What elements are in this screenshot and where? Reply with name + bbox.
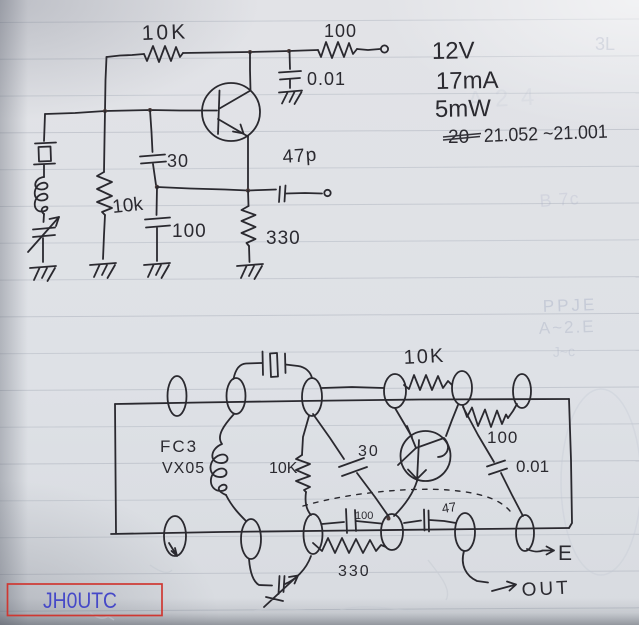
variable capacitor VC1 plates [33, 228, 55, 230]
svg-text:JH0UTC: JH0UTC [43, 588, 117, 613]
capacitor 0.01 lower lead to post B6 [501, 473, 523, 516]
svg-text:0.01: 0.01 [516, 457, 549, 476]
svg-text:100: 100 [355, 510, 373, 522]
post P4 [384, 374, 406, 408]
resistor R3 10k (bias) [97, 172, 112, 215]
crystal X1 right plate [284, 354, 287, 374]
resistor 10K (top of board) [404, 375, 452, 390]
svg-text:0.01: 0.01 [307, 69, 346, 89]
board outline bottom edge [111, 528, 569, 534]
capacitor C1 lower stub [289, 80, 291, 88]
capacitor C3 100 plates [145, 218, 170, 220]
post B1 [164, 516, 186, 556]
node junction rail/bypass [287, 49, 291, 53]
wire to output terminal [357, 49, 380, 50]
resistor 330 (layout) [313, 538, 386, 553]
resistor 100 (diagonal) [463, 406, 508, 427]
wire top rail left segment [107, 54, 145, 57]
capacitor 30 plates (layout) [339, 458, 367, 476]
crystal X1 branch top wire [44, 114, 45, 141]
svg-text:12V: 12V [432, 37, 475, 65]
wire post3 to cap30 [313, 414, 344, 459]
board outline right edge [569, 399, 572, 528]
post B1 inner mark [169, 543, 177, 556]
svg-text:30: 30 [358, 443, 380, 460]
svg-text:330: 330 [338, 563, 371, 580]
ground G5 (0.01) [279, 91, 302, 105]
terminal (12V feed) [381, 45, 388, 52]
node junction middle/bias [103, 109, 107, 113]
svg-text:10k: 10k [111, 194, 144, 218]
wire feedback rail [157, 187, 276, 191]
wire crystal left lead [234, 363, 263, 379]
post P2 [227, 378, 246, 414]
capacitor C2 30 plates [140, 155, 165, 157]
resistor R1 10K (top rail) [144, 46, 183, 62]
wire post B2 to varcap [249, 559, 272, 586]
wire emitter to post B4 [394, 481, 417, 516]
shading overlays [0, 0, 28, 625]
transistor Q1 chord 1 [398, 426, 416, 465]
variable capacitor VC1 arrow [28, 217, 59, 252]
post P6 [513, 374, 531, 408]
ground G4 (330) [237, 264, 263, 279]
dashed shield wire [303, 489, 513, 515]
node junction middle/C30 [148, 108, 152, 112]
resistor 10K (layout vertical) [296, 455, 310, 492]
variable capacitor plates (layout) [279, 576, 285, 594]
wire C100 to ground [156, 228, 158, 261]
capacitor C1 0.01 lead [289, 51, 292, 69]
capacitor C1 0.01 plates [279, 71, 301, 73]
node junction B4 top [387, 517, 391, 521]
wire 330 column upper [247, 191, 250, 207]
wire cap47 to B5 [430, 520, 457, 523]
wire top rail middle segment [183, 50, 318, 53]
transistor Q1 body [202, 83, 260, 141]
transistor Q1 emitter arrowhead [233, 125, 244, 134]
variable capacitor arrow (layout) [264, 576, 298, 608]
wire coil to post B2 [226, 495, 246, 521]
wire 330 to ground [248, 246, 251, 262]
svg-text:E: E [558, 542, 572, 565]
variable capacitor VC1 arrowhead [50, 217, 60, 226]
svg-text:21.052 ~21.001: 21.052 ~21.001 [483, 122, 608, 147]
capacitor 47 plates (layout) [424, 510, 429, 532]
wire crystal to coil [43, 165, 45, 177]
transistor Q1 emitter arrow [408, 440, 426, 481]
inductor L1 [35, 177, 48, 214]
transistor Q1 chord 2 [416, 438, 448, 457]
capacitor C4 47p plates [279, 187, 280, 203]
svg-text:B 7c: B 7c [539, 188, 580, 211]
svg-text:330: 330 [266, 228, 301, 249]
transistor Q1 emitter stroke [218, 119, 248, 137]
svg-text:100: 100 [324, 21, 357, 41]
wire post5 to transistor [446, 405, 458, 436]
wire emitter down [247, 137, 249, 191]
wire B5 to OUT [463, 551, 488, 583]
transistor Q1 collector stroke [220, 52, 251, 109]
wire post4 to transistor [395, 408, 412, 437]
ground G3 (C100) [144, 263, 170, 278]
wire left vertical (rail to middle) [105, 57, 107, 111]
svg-text:30: 30 [167, 151, 189, 171]
terminal (RF out tap) [324, 190, 330, 196]
capacitor 0.01 upper lead [463, 407, 494, 462]
svg-text:OUT: OUT [521, 577, 571, 601]
wire B6 to E arrow [527, 547, 554, 555]
wire bias column upper [104, 111, 105, 172]
svg-text:100: 100 [172, 221, 207, 242]
wire base rail (middle horizontal) [45, 110, 217, 114]
wire cap100 to B4 [356, 521, 381, 524]
svg-text:10K: 10K [269, 460, 298, 477]
ground G1 (varcap) [30, 266, 56, 281]
node junction C30/C100 [155, 185, 159, 189]
post B3 [304, 514, 323, 554]
svg-text:J~c: J~c [553, 343, 576, 360]
ground G2 (bias) [90, 263, 116, 278]
wire post3 to resistor 10K vertical [302, 416, 309, 455]
resistor R2 100 (top rail) [318, 42, 357, 58]
post B4 [381, 514, 403, 550]
OUT arrow [492, 582, 516, 592]
wire crystal right lead [286, 365, 313, 379]
resistor R4 330 [242, 206, 256, 246]
wire varcap to post B3 [285, 556, 311, 584]
wire B3 to cap100 [322, 522, 344, 524]
svg-text:47: 47 [441, 499, 457, 516]
svg-text:A~2.E: A~2.E [538, 317, 595, 338]
post B2 [241, 519, 261, 559]
wire 47p to terminal [286, 192, 322, 195]
crystal X1 bottom plate [34, 164, 55, 165]
svg-text:FC3: FC3 [160, 437, 198, 456]
crystal X1 left plate [262, 352, 265, 376]
wire bias column lower [103, 215, 105, 259]
transistor Q1 base bar [218, 91, 220, 135]
wire coil to varcap [43, 214, 46, 222]
wire varcap to ground [42, 238, 44, 262]
wire C30 column upper [150, 110, 153, 152]
svg-text:10K: 10K [403, 345, 446, 369]
post B6 [516, 515, 534, 551]
wire C100 column [156, 187, 159, 215]
svg-text:100: 100 [487, 428, 518, 447]
strikethrough on 20 [443, 134, 481, 141]
post P5 [452, 371, 472, 405]
node junction rail/collector [248, 50, 252, 54]
wire 10K to post B3 [306, 492, 311, 515]
svg-text:3L: 3L [595, 34, 615, 54]
capacitor 0.01 plates [487, 461, 507, 475]
svg-text:17mA: 17mA [436, 67, 499, 95]
crystal X1 top plate [35, 143, 56, 144]
node junction emitter/feedback [246, 188, 250, 192]
board outline top edge [115, 399, 569, 404]
wire C30 to node [153, 164, 156, 185]
wire B4 to cap47 [404, 521, 421, 524]
wire 100 to post6 [508, 404, 517, 418]
crystal X1 body [270, 353, 278, 377]
post P3 [302, 378, 322, 416]
svg-text:47p: 47p [282, 145, 318, 168]
capacitor 100 plates (layout) [346, 509, 356, 533]
post B5 [455, 513, 475, 551]
wire node3 to node4 [322, 387, 384, 388]
svg-text:PPJE: PPJE [542, 295, 597, 316]
crystal X1 body [39, 147, 52, 162]
post P1 [168, 376, 187, 416]
inductor FCZ coil [210, 414, 234, 495]
callsign box [8, 584, 163, 616]
wire cap30 to post B4 [357, 473, 389, 517]
svg-text:10K: 10K [141, 20, 188, 45]
transistor Q1 body (layout) [401, 431, 451, 481]
board outline left edge [115, 404, 116, 534]
svg-text:5mW: 5mW [435, 95, 492, 123]
svg-text:VX05: VX05 [162, 460, 205, 477]
